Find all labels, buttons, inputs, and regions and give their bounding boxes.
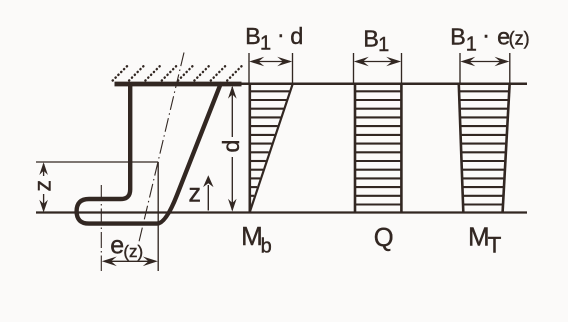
load axis centerline (dash-dot vertical) xyxy=(100,185,102,271)
member axis centerline (dash-dot) xyxy=(138,53,184,246)
M_b diagram hypotenuse xyxy=(250,85,293,213)
svg-text:·: · xyxy=(277,21,285,47)
B1 dimension arrow xyxy=(357,61,398,63)
bending moment diagram M_b hatching xyxy=(251,91,290,204)
dimension z arrowhead bottom xyxy=(39,200,48,213)
svg-text:(z): (z) xyxy=(509,29,530,49)
dimension e(z) arrow xyxy=(106,260,154,262)
B1*d dimension extension lines xyxy=(248,53,250,84)
svg-text:(z): (z) xyxy=(123,242,143,261)
svg-text:1: 1 xyxy=(378,34,389,56)
svg-text:e: e xyxy=(110,232,124,260)
svg-text:1: 1 xyxy=(466,33,477,55)
support line (fixed wall) xyxy=(115,82,242,87)
B1*e(z) dimension extension lines xyxy=(459,53,461,84)
dimension d line xyxy=(231,87,233,137)
M_b diagram left edge xyxy=(249,85,252,213)
bracket member outline (bent bar) xyxy=(77,84,221,224)
svg-text:z: z xyxy=(189,180,202,208)
svg-text:z: z xyxy=(29,180,55,192)
svg-text:Q: Q xyxy=(374,224,394,252)
B1*d dimension arrow xyxy=(252,61,290,63)
M_T diagram left edge xyxy=(459,85,464,213)
svg-text:B: B xyxy=(450,24,466,50)
svg-text:d: d xyxy=(290,23,303,49)
svg-text:T: T xyxy=(488,232,502,257)
svg-text:1: 1 xyxy=(260,33,271,55)
dimension d arrowhead bottom xyxy=(228,199,237,212)
e(z) right extension line xyxy=(157,162,159,271)
svg-text:M: M xyxy=(468,222,490,252)
svg-text:B: B xyxy=(363,25,379,51)
torsion diagram M_T hatching xyxy=(460,91,508,204)
shear diagram Q hatching xyxy=(356,91,401,204)
top reference line of diagrams xyxy=(242,82,528,85)
svg-text:M: M xyxy=(241,221,263,251)
svg-text:b: b xyxy=(261,235,272,257)
Q diagram left edge xyxy=(354,85,357,213)
dimension z arrowhead top xyxy=(39,162,48,175)
local z coordinate arrow xyxy=(207,185,209,211)
B1 dimension extension lines xyxy=(353,53,355,84)
M_T diagram right edge xyxy=(503,85,510,213)
wall hatching xyxy=(113,66,243,81)
z top extension line xyxy=(36,161,158,163)
dimension d arrowhead top xyxy=(228,86,237,99)
Q diagram right edge xyxy=(400,85,403,213)
baseline (bottom reference line) xyxy=(36,211,527,213)
dimension z (left) line xyxy=(43,164,45,176)
svg-text:·: · xyxy=(482,21,490,47)
svg-text:B: B xyxy=(245,23,261,49)
svg-text:d: d xyxy=(218,140,244,153)
B1*e(z) dimension arrow xyxy=(463,61,507,63)
